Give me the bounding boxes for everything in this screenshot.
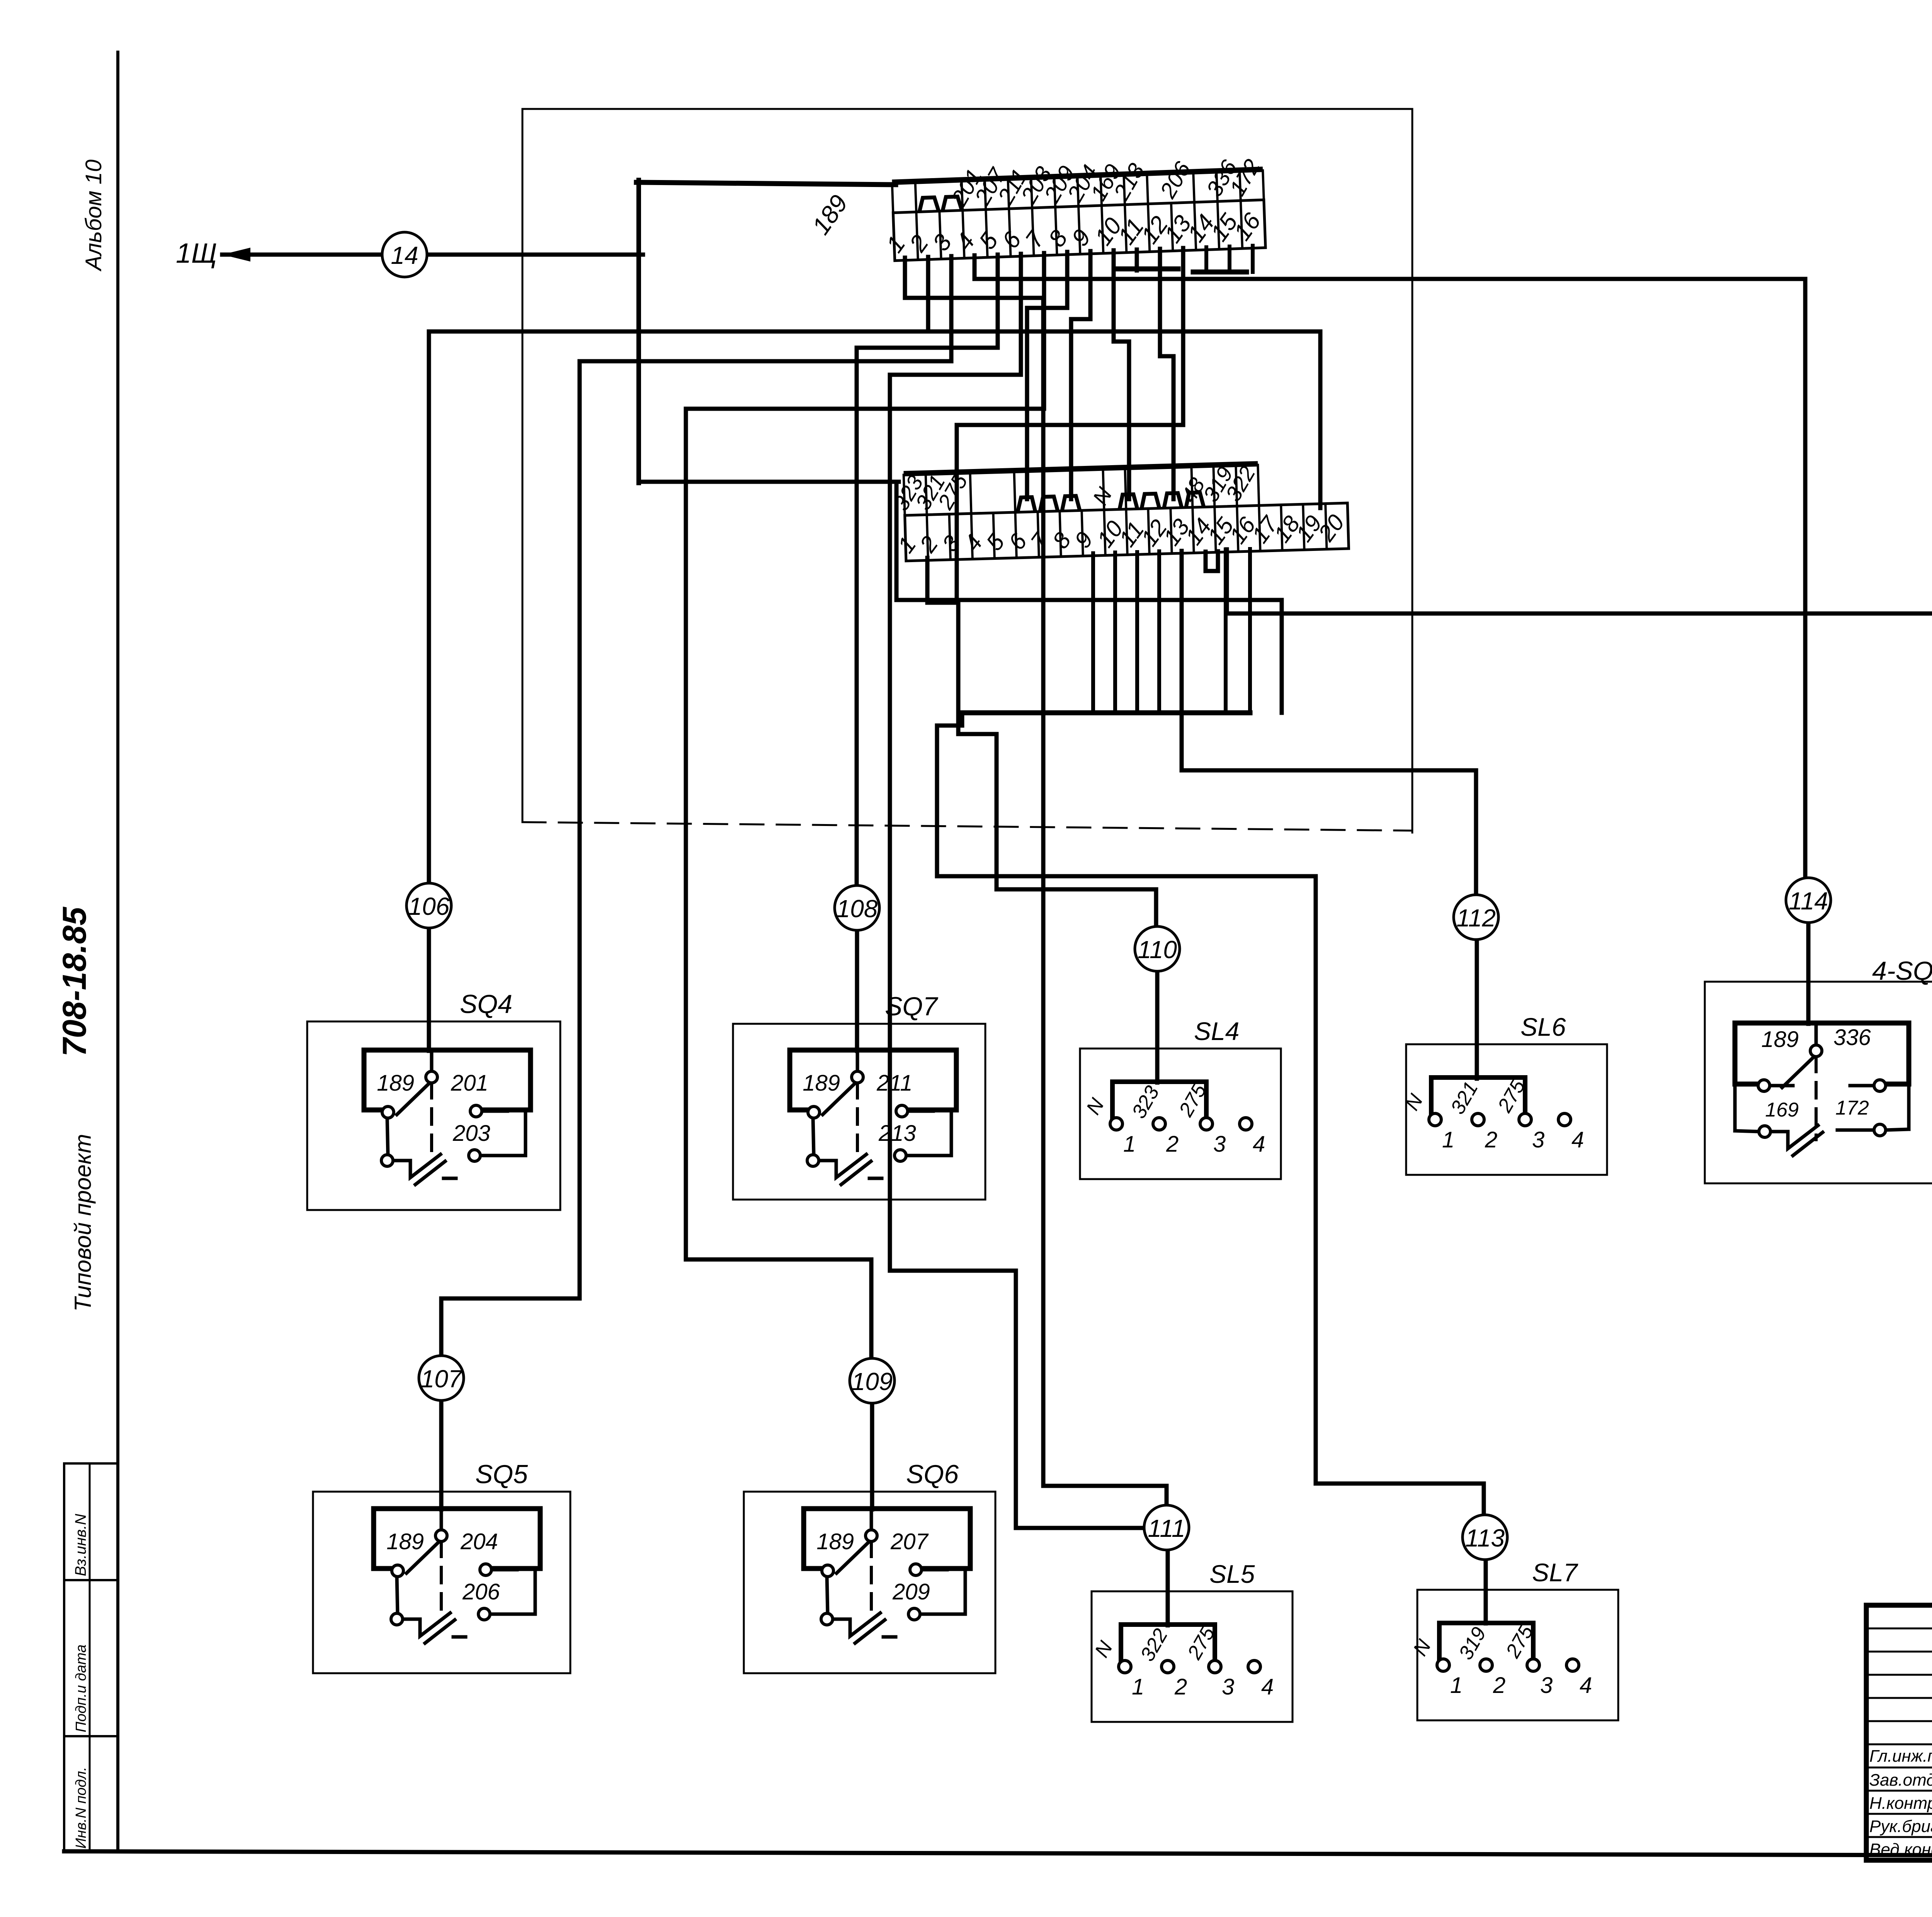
svg-text:3: 3 (1213, 1132, 1226, 1157)
svg-text:Гл.инж.пр: Гл.инж.пр (1869, 1747, 1932, 1766)
svg-text:2: 2 (1493, 1673, 1505, 1698)
svg-text:Типовой проект: Типовой проект (70, 1134, 96, 1312)
svg-text:2: 2 (1166, 1132, 1179, 1157)
svg-text:SQ6: SQ6 (906, 1460, 959, 1489)
svg-text:1Щ: 1Щ (176, 238, 217, 269)
svg-text:4: 4 (1571, 1127, 1584, 1152)
svg-text:336: 336 (1833, 1025, 1871, 1050)
svg-text:14: 14 (391, 241, 418, 269)
svg-text:Вед.констр.: Вед.констр. (1869, 1840, 1932, 1859)
svg-text:708-18.85: 708-18.85 (56, 906, 93, 1057)
svg-text:169: 169 (1765, 1099, 1799, 1121)
svg-text:113: 113 (1465, 1524, 1505, 1552)
svg-text:108: 108 (837, 895, 878, 923)
svg-text:209: 209 (892, 1579, 930, 1604)
svg-text:213: 213 (878, 1121, 916, 1146)
svg-text:3: 3 (1540, 1673, 1553, 1698)
svg-text:SQ5: SQ5 (475, 1460, 528, 1489)
svg-text:SQ7: SQ7 (885, 992, 938, 1021)
svg-text:111: 111 (1148, 1514, 1185, 1542)
svg-text:2: 2 (1485, 1127, 1497, 1152)
svg-text:3: 3 (1532, 1127, 1544, 1152)
svg-text:207: 207 (890, 1529, 929, 1554)
svg-text:107: 107 (421, 1365, 463, 1393)
svg-text:2: 2 (1174, 1674, 1187, 1699)
svg-text:4: 4 (1253, 1132, 1265, 1157)
svg-text:204: 204 (460, 1529, 498, 1554)
svg-text:Инв.N подл.: Инв.N подл. (73, 1767, 89, 1849)
svg-text:189: 189 (377, 1071, 414, 1096)
svg-text:189: 189 (816, 1529, 854, 1554)
svg-text:4: 4 (1261, 1674, 1274, 1699)
svg-text:203: 203 (452, 1121, 490, 1146)
svg-text:201: 201 (451, 1071, 488, 1096)
svg-text:189: 189 (803, 1071, 840, 1096)
svg-text:SL4: SL4 (1194, 1017, 1239, 1045)
svg-text:4: 4 (1580, 1673, 1592, 1698)
svg-text:SL5: SL5 (1209, 1560, 1255, 1588)
svg-text:110: 110 (1138, 936, 1177, 964)
svg-text:Н.контр: Н.контр (1869, 1794, 1932, 1813)
svg-text:Вз.инв.N: Вз.инв.N (72, 1514, 89, 1576)
svg-text:3: 3 (1222, 1674, 1234, 1699)
svg-text:109: 109 (852, 1368, 893, 1395)
svg-text:Подп.и дата: Подп.и дата (73, 1645, 89, 1732)
svg-text:189: 189 (386, 1529, 424, 1554)
svg-text:206: 206 (462, 1579, 500, 1604)
svg-text:4-SQ3: 4-SQ3 (1872, 956, 1932, 986)
svg-text:1: 1 (1450, 1673, 1463, 1698)
svg-text:1: 1 (1123, 1132, 1136, 1157)
svg-text:Альбом 10: Альбом 10 (81, 160, 106, 272)
svg-text:1: 1 (1442, 1127, 1454, 1152)
svg-text:112: 112 (1456, 904, 1496, 932)
svg-text:211: 211 (876, 1071, 912, 1096)
svg-text:Зав.отд.: Зав.отд. (1869, 1771, 1932, 1790)
svg-text:189: 189 (1761, 1027, 1799, 1052)
svg-text:SL6: SL6 (1520, 1013, 1566, 1041)
svg-text:Рук.бриг.: Рук.бриг. (1869, 1817, 1932, 1836)
svg-text:106: 106 (408, 892, 450, 920)
svg-text:114: 114 (1789, 887, 1828, 915)
svg-text:172: 172 (1835, 1097, 1869, 1119)
svg-text:SQ4: SQ4 (460, 989, 512, 1019)
svg-text:SL7: SL7 (1532, 1558, 1578, 1587)
svg-text:1: 1 (1132, 1674, 1144, 1699)
